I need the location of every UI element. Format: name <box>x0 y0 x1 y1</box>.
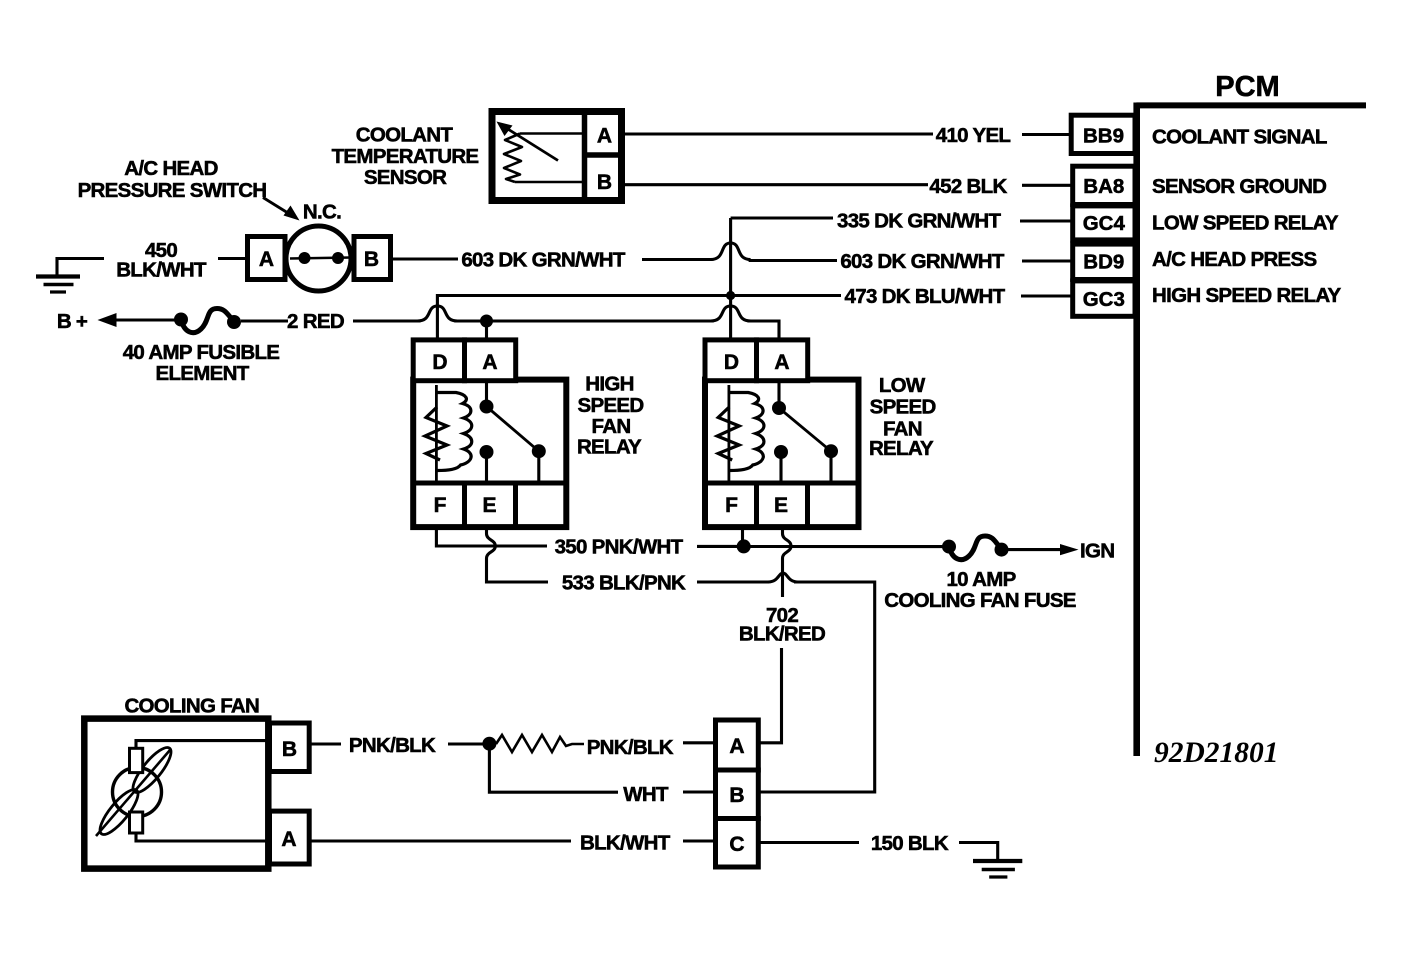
wire 2 RED segment <box>353 319 420 322</box>
svg-text:D: D <box>724 351 739 374</box>
high relay switch arm <box>487 407 539 452</box>
high relay bottom row F E blank <box>413 483 566 527</box>
wire 702 down to fan connector A <box>759 648 782 743</box>
wire 603 right segment <box>749 259 837 262</box>
wire 335 into GC4 <box>1020 219 1072 222</box>
svg-text:452 BLK: 452 BLK <box>929 175 1007 198</box>
wire BLK/WHT from fan A <box>309 839 571 842</box>
high relay NO contact dot <box>532 444 546 458</box>
wire 335 vertical to low relay D <box>729 218 732 342</box>
svg-text:N.C.: N.C. <box>303 201 341 224</box>
svg-text:SENSOR: SENSOR <box>364 166 447 189</box>
svg-text:A: A <box>281 828 296 851</box>
svg-text:BLK/WHT: BLK/WHT <box>116 259 207 282</box>
svg-text:A: A <box>482 351 497 374</box>
svg-text:COOLANT: COOLANT <box>356 124 454 147</box>
svg-text:B: B <box>729 784 744 807</box>
low speed fan relay main box <box>705 380 859 527</box>
wire hop: 533 over 702 line <box>768 573 798 582</box>
fan motor wires <box>136 741 270 748</box>
svg-text:SPEED: SPEED <box>578 394 644 417</box>
svg-text:A: A <box>774 351 789 374</box>
harness connector pin A box <box>716 720 759 770</box>
PCM pin GC4 <box>1073 206 1135 240</box>
svg-text:B: B <box>597 171 612 194</box>
svg-text:A/C HEAD PRESS: A/C HEAD PRESS <box>1152 248 1317 271</box>
svg-text:TEMPERATURE: TEMPERATURE <box>332 145 479 168</box>
svg-text:BLK/RED: BLK/RED <box>739 623 825 646</box>
ground G450 (top left) <box>36 259 104 293</box>
wire 410 YEL into BB9 <box>1022 133 1072 136</box>
low relay switch arm <box>779 408 831 451</box>
wire hop: 2 RED over 473 vertical <box>417 306 457 321</box>
wire hop: 2 RED over 335 vertical <box>711 306 751 321</box>
wire 452 BLK into BA8 <box>1022 184 1072 187</box>
svg-text:COOLING FAN: COOLING FAN <box>124 695 259 718</box>
high relay pin D box <box>413 340 464 381</box>
svg-text:603 DK GRN/WHT: 603 DK GRN/WHT <box>840 250 1005 273</box>
svg-text:A: A <box>597 125 612 148</box>
wire 452 BLK from sensor B <box>623 183 928 186</box>
low relay pin D box <box>705 340 757 381</box>
wire WHT into connector B <box>683 790 716 793</box>
wire 603 mid segment <box>642 258 713 261</box>
svg-text:533 BLK/PNK: 533 BLK/PNK <box>562 572 686 595</box>
svg-text:B: B <box>364 248 379 271</box>
svg-text:HIGH SPEED RELAY: HIGH SPEED RELAY <box>1152 284 1342 307</box>
svg-text:WHT: WHT <box>623 783 669 806</box>
thermistor element <box>504 134 582 183</box>
40 amp fusible element <box>174 309 241 333</box>
wire to junction <box>448 742 486 745</box>
high relay E contact dot <box>480 445 494 459</box>
A/C head pressure switch circle <box>286 226 351 291</box>
junction dot PNK/BLK <box>482 737 496 751</box>
wire A pin inside high relay <box>485 381 488 406</box>
high relay pin A box <box>465 340 516 381</box>
cooling fan box <box>84 719 268 869</box>
svg-text:E: E <box>774 494 788 517</box>
svg-text:PNK/BLK: PNK/BLK <box>587 736 674 759</box>
svg-text:PRESSURE SWITCH: PRESSURE SWITCH <box>78 179 267 202</box>
coolant temperature sensor box <box>492 110 623 202</box>
high relay switch common dot <box>480 400 494 414</box>
wire hop: 603 over 335 vertical <box>711 243 751 260</box>
PCM pin GC3 <box>1073 281 1135 316</box>
wire fusible to 2 RED <box>241 319 288 322</box>
svg-text:2 RED: 2 RED <box>287 310 344 333</box>
PCM pin BB9 <box>1071 115 1135 153</box>
low relay coil <box>717 385 764 482</box>
svg-text:A/C HEAD: A/C HEAD <box>124 157 218 180</box>
wire high relay A pin <box>485 321 488 342</box>
svg-text:150 BLK: 150 BLK <box>871 832 949 855</box>
resistor (fan dropping resistor) <box>496 735 584 752</box>
wire 533 mid <box>697 580 769 583</box>
low relay E contact dot <box>774 445 788 459</box>
high relay coil <box>425 385 472 482</box>
svg-text:SPEED: SPEED <box>870 396 936 419</box>
PCM pin BD9 <box>1073 244 1135 279</box>
wire 150 BLK from connector C <box>758 841 859 844</box>
svg-text:PNK/BLK: PNK/BLK <box>349 734 436 757</box>
fan connector B box <box>270 723 310 772</box>
wire B+ to fusible element <box>112 318 180 321</box>
svg-text:410 YEL: 410 YEL <box>936 124 1011 147</box>
PCM pin BA8 <box>1073 166 1135 204</box>
svg-text:ELEMENT: ELEMENT <box>155 362 249 385</box>
svg-text:BD9: BD9 <box>1083 251 1124 274</box>
wire 335 DK GRN/WHT horizontal <box>731 216 833 219</box>
wire low relay F pin down <box>741 527 744 546</box>
svg-text:335 DK GRN/WHT: 335 DK GRN/WHT <box>837 210 1002 233</box>
svg-text:603 DK GRN/WHT: 603 DK GRN/WHT <box>461 249 626 272</box>
svg-text:B: B <box>282 738 297 761</box>
fan connector A box <box>270 811 310 864</box>
wire PNK/BLK into connector A <box>683 741 716 744</box>
svg-text:D: D <box>432 351 447 374</box>
switch contact dots <box>299 252 311 264</box>
svg-text:HIGH: HIGH <box>585 373 633 396</box>
svg-text:473 DK BLU/WHT: 473 DK BLU/WHT <box>845 285 1006 308</box>
svg-text:40 AMP FUSIBLE: 40 AMP FUSIBLE <box>123 341 280 364</box>
svg-text:COOLING FAN FUSE: COOLING FAN FUSE <box>884 589 1076 612</box>
low relay pin A box <box>757 340 808 381</box>
junction dot 350 / low relay F <box>737 539 751 553</box>
svg-text:A: A <box>259 248 274 271</box>
wire 350 mid <box>697 545 738 548</box>
wire A pin inside low relay <box>777 381 780 407</box>
wire 2 RED to low relay A <box>748 321 779 342</box>
wire 603 DK GRN/WHT (left of label) <box>392 257 459 260</box>
svg-text:92D21801: 92D21801 <box>1154 737 1279 769</box>
leader arrow to switch <box>263 198 300 221</box>
wire BLK/WHT into connector C <box>683 839 716 842</box>
wire high relay F pin down <box>436 527 547 546</box>
harness connector pin B box <box>716 770 759 819</box>
svg-text:RELAY: RELAY <box>869 437 934 460</box>
svg-text:350 PNK/WHT: 350 PNK/WHT <box>555 536 684 559</box>
svg-text:B +: B + <box>57 310 88 333</box>
svg-text:C: C <box>729 833 744 856</box>
svg-text:BLK/WHT: BLK/WHT <box>580 832 671 855</box>
wire PNK/BLK from fan B <box>309 742 341 745</box>
svg-text:E: E <box>482 494 496 517</box>
wire 2 RED to junction <box>454 319 713 322</box>
svg-text:LOW SPEED RELAY: LOW SPEED RELAY <box>1152 212 1339 235</box>
switch pin B box <box>354 237 391 280</box>
junction blob at 473 crossing <box>726 291 735 300</box>
wire 410 YEL from sensor A <box>623 132 933 135</box>
fan symbol <box>94 743 176 840</box>
svg-text:PCM: PCM <box>1215 71 1279 103</box>
switch contact line <box>290 258 351 259</box>
switch pin A box <box>248 237 286 280</box>
svg-text:A: A <box>729 735 744 758</box>
svg-text:GC4: GC4 <box>1083 212 1126 235</box>
wire 150 BLK to ground <box>959 843 998 860</box>
wire WHT from junction <box>489 744 618 793</box>
wire high relay E pin down to 533 <box>487 527 549 582</box>
svg-text:BB9: BB9 <box>1083 125 1124 148</box>
svg-text:BA8: BA8 <box>1083 175 1124 198</box>
low relay NO contact dot <box>824 444 838 458</box>
wire 603 into BD9 <box>1022 259 1072 262</box>
low relay bottom row F E blank <box>705 483 859 527</box>
wire low relay E pin (702) down <box>783 527 792 597</box>
svg-text:F: F <box>434 494 447 517</box>
wire 473 DK BLU/WHT horizontal <box>437 296 841 343</box>
harness connector pin C box <box>716 819 759 868</box>
svg-text:LOW: LOW <box>879 374 926 397</box>
thermistor variable arrow <box>497 122 559 161</box>
svg-text:SENSOR GROUND: SENSOR GROUND <box>1152 175 1326 198</box>
wire fuse to IGN arrow <box>1008 548 1064 551</box>
svg-text:10 AMP: 10 AMP <box>946 568 1015 591</box>
svg-text:IGN: IGN <box>1080 540 1114 563</box>
wire 473 into GC3 <box>1021 294 1072 297</box>
wire 450 to switch pin A <box>218 257 246 260</box>
wire 533 to corner and down to fan connector B <box>759 582 875 792</box>
10 amp cooling fan fuse <box>942 536 1009 560</box>
ground G150 <box>973 861 1022 877</box>
svg-text:F: F <box>725 494 738 517</box>
battery feed arrow <box>98 313 117 327</box>
junction dot 2 RED / high relay A <box>480 315 493 328</box>
low relay switch common dot <box>772 401 786 415</box>
high speed fan relay main box <box>413 380 566 527</box>
wire 350 to fuse <box>744 545 949 548</box>
PCM outline <box>1136 103 1366 757</box>
svg-text:COOLANT SIGNAL: COOLANT SIGNAL <box>1152 125 1327 148</box>
svg-text:GC3: GC3 <box>1083 288 1125 311</box>
svg-text:RELAY: RELAY <box>577 436 642 459</box>
